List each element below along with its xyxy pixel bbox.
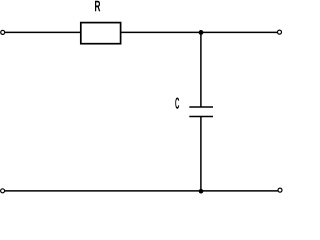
wire node B to terminal bottom-right xyxy=(201,190,278,192)
wire resistor to node A xyxy=(122,31,202,33)
terminal top-left xyxy=(1,30,5,34)
terminal bottom-left xyxy=(1,189,5,193)
wire capacitor down to node B xyxy=(200,117,202,191)
wire node A down to capacitor xyxy=(200,32,202,107)
wire bottom-left to node B xyxy=(5,190,201,192)
capacitor C xyxy=(189,107,213,117)
label C xyxy=(175,98,179,109)
label R xyxy=(95,1,100,11)
terminal top-right xyxy=(278,30,282,34)
wire node A to terminal top-right xyxy=(201,31,278,33)
node B junction dot xyxy=(199,189,204,194)
resistor R xyxy=(81,23,121,44)
terminal bottom-right xyxy=(278,188,282,192)
node A junction dot xyxy=(199,30,204,35)
wire top-left to resistor xyxy=(5,31,81,33)
